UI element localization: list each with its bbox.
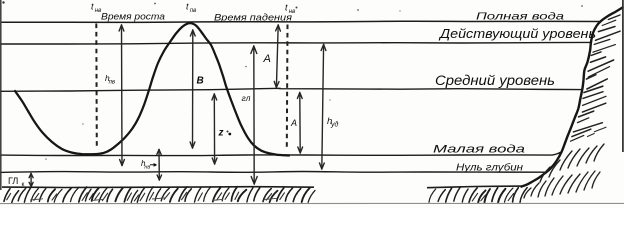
svg-text:гл: гл <box>242 93 251 103</box>
svg-text:уд: уд <box>330 120 339 128</box>
svg-text:B: B <box>197 76 204 87</box>
svg-text:к: к <box>22 181 25 188</box>
svg-text:A: A <box>263 53 271 65</box>
svg-text:нв: нв <box>144 164 150 170</box>
svg-text:Действующий уровень: Действующий уровень <box>438 27 596 41</box>
svg-text:Полная вода: Полная вода <box>476 11 564 23</box>
svg-text:Малая вода: Малая вода <box>433 144 525 156</box>
svg-text:Время падения: Время падения <box>214 13 292 24</box>
svg-text:A: A <box>290 118 297 128</box>
svg-text:Время роста: Время роста <box>101 12 165 23</box>
svg-text:ГЛ: ГЛ <box>8 176 18 186</box>
svg-text:Средний уровень: Средний уровень <box>435 73 555 88</box>
svg-text:Нуль глубин: Нуль глубин <box>456 162 523 174</box>
svg-text:пв: пв <box>190 8 196 14</box>
svg-text:z: z <box>218 128 224 139</box>
svg-text:пв: пв <box>109 79 115 85</box>
